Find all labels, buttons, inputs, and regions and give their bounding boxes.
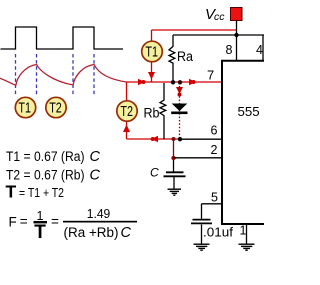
svg-text:F: F	[9, 215, 17, 230]
svg-text:C: C	[90, 149, 101, 165]
svg-text:4: 4	[256, 43, 263, 57]
svg-text:= T1 + T2: = T1 + T2	[19, 185, 64, 200]
svg-text:T1: T1	[145, 44, 158, 61]
svg-text:cc: cc	[214, 11, 225, 23]
svg-text:8: 8	[226, 43, 233, 57]
svg-text:6: 6	[211, 124, 218, 138]
svg-text:7: 7	[207, 68, 214, 83]
svg-text:T2: T2	[49, 100, 62, 117]
svg-text:T: T	[34, 222, 46, 243]
svg-text:Ra: Ra	[177, 49, 193, 64]
svg-text:=: =	[20, 214, 28, 229]
svg-text:C: C	[121, 225, 132, 241]
svg-text:T2: T2	[120, 103, 133, 120]
svg-text:T: T	[6, 182, 17, 202]
svg-text:(Ra +Rb): (Ra +Rb)	[64, 225, 119, 240]
svg-text:T1 = 0.67 (Ra): T1 = 0.67 (Ra)	[6, 149, 85, 164]
svg-text:.01uf: .01uf	[203, 224, 233, 239]
svg-text:C: C	[150, 166, 159, 180]
svg-text:5: 5	[211, 191, 218, 205]
svg-text:1: 1	[240, 223, 247, 237]
svg-text:1: 1	[37, 209, 44, 223]
svg-text:T1: T1	[18, 100, 31, 117]
svg-text:2: 2	[211, 143, 218, 157]
svg-text:1.49: 1.49	[87, 206, 111, 221]
svg-text:=: =	[51, 214, 59, 229]
svg-text:T2 = 0.67 (Rb): T2 = 0.67 (Rb)	[6, 168, 85, 183]
svg-text:Rb: Rb	[144, 106, 160, 121]
svg-text:555: 555	[238, 105, 260, 119]
svg-text:C: C	[90, 168, 101, 184]
